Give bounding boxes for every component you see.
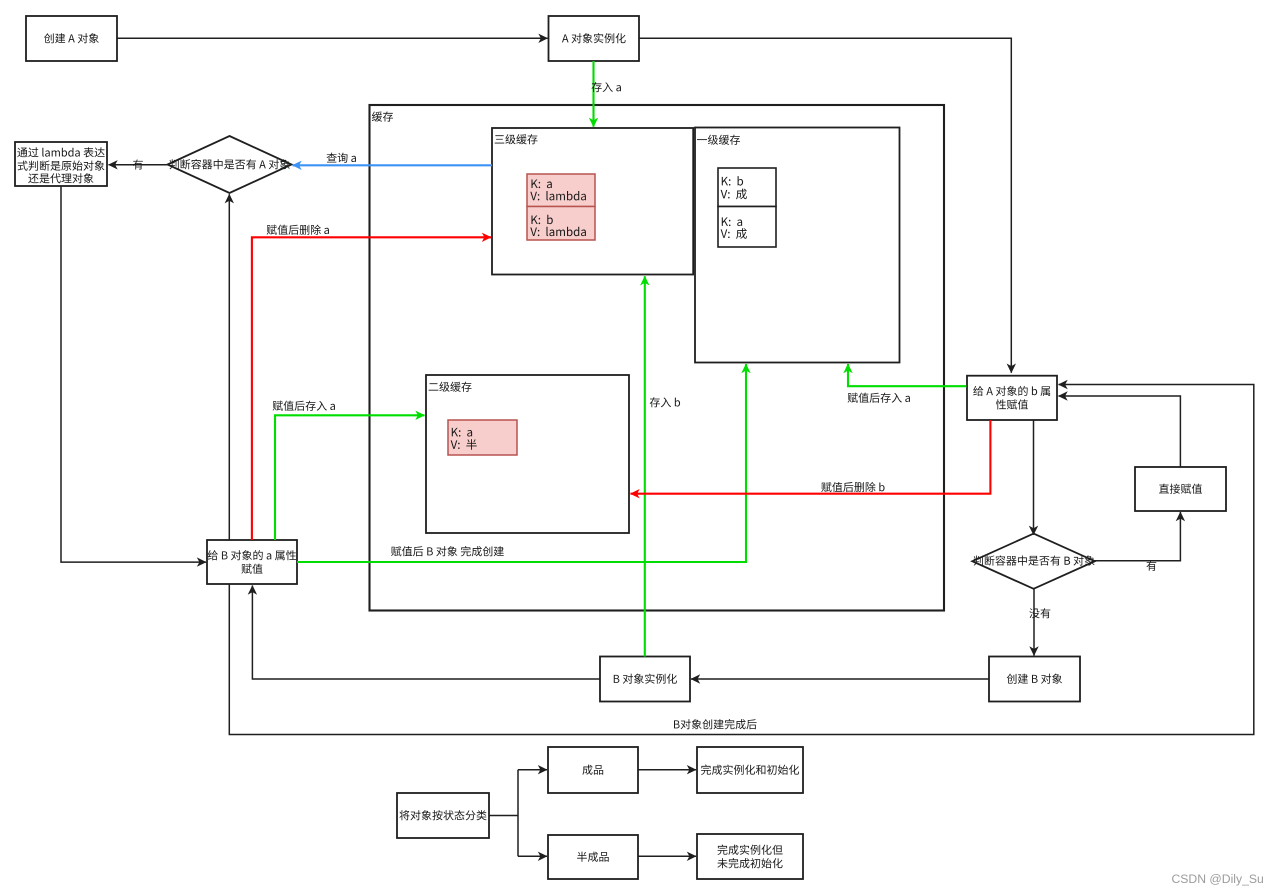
cache entry cell K:a V:半 (二级缓存)	[448, 420, 517, 455]
label 存入 a	[592, 82, 621, 92]
label 赋值后 B 对象 完成创建	[391, 546, 504, 556]
arrow big loop B对象创建完成后: 给B bottom around to 给A right (upper)	[229, 385, 1254, 735]
decision diamond 判断容器中是否有 B 对象	[972, 534, 1095, 589]
arrow branch to 半成品	[518, 855, 547, 857]
cache entry cell K:a V:成 (一级缓存)	[718, 207, 776, 248]
arrow 给A对象的b属性赋值 bottom to diamond-B top	[1033, 420, 1035, 535]
process box B 对象实例化	[600, 657, 690, 702]
arrow diamond-A left to lambda box, label 有	[109, 164, 168, 166]
process box 给 A 对象的 b 属性赋值	[967, 376, 1057, 420]
blue arrow 查询 a: 三级缓存 left to diamond-A right	[293, 164, 493, 166]
arrow diamond-B bottom to 创建B对象, label 没有	[1033, 588, 1035, 656]
cache entry cell K:b V:lambda (三级缓存)	[527, 207, 595, 241]
label 赋值后删除 b	[821, 482, 884, 492]
label B对象创建完成后	[674, 719, 757, 729]
process box 给 B 对象的 a 属性赋值	[207, 540, 297, 584]
arrow A对象实例化 right to 给A对象的b属性赋值 top	[639, 38, 1011, 372]
process box 将对象按状态分类	[397, 793, 489, 838]
red arrow 赋值后删除 a: 给B top to 三级缓存 left	[252, 237, 491, 540]
label 赋值后存入 a (left)	[273, 401, 335, 411]
arrow 给B对象的a属性赋值 top to diamond-A bottom	[228, 194, 230, 540]
label 有 (A diamond)	[133, 159, 143, 169]
process box A 对象实例化	[549, 16, 640, 61]
outer cache container box 缓存	[370, 105, 945, 611]
process box 半成品	[548, 835, 638, 879]
label 三级缓存	[495, 134, 538, 144]
label 赋值后删除 a	[267, 225, 329, 235]
green arrow 赋值后存入 a: 给B top to 二级缓存 left	[275, 415, 425, 540]
green arrow 赋值后 B 对象 完成创建: 给B right to 一级缓存 bottom	[297, 364, 746, 562]
process box 直接赋值	[1135, 467, 1226, 511]
process box 创建 B 对象	[989, 657, 1080, 702]
label 有 (B diamond)	[1146, 561, 1156, 571]
cache entry cell K:a V:lambda (三级缓存)	[527, 174, 595, 207]
process box 通过 lambda 表达式判断是原始对象还是代理对象	[15, 142, 107, 186]
label 赋值后存入 a (right)	[848, 393, 910, 403]
green arrow 存入 b: B对象实例化 top to 三级缓存 bottom	[644, 276, 646, 656]
arrow branch to 成品	[518, 769, 547, 771]
arrow 直接赋值 top to 给A对象的b属性赋值 right (lower)	[1059, 396, 1181, 467]
process box 完成实例化和初始化	[697, 747, 803, 793]
arrow 半成品 to 完成实例化但未完成初始化	[638, 855, 696, 857]
label 存入 b	[650, 397, 680, 407]
arrow 创建B对象 to B对象实例化	[691, 678, 989, 680]
green arrow 赋值后存入 a: 给A left to 一级缓存 bottom	[848, 364, 967, 386]
label 一级缓存	[697, 135, 740, 145]
svg-text:CSDN @Dily_Su: CSDN @Dily_Su	[1172, 872, 1264, 886]
connector 将对象按状态分类 branch	[489, 815, 518, 817]
arrow 创建A对象 to A对象实例化	[117, 37, 548, 39]
third-level cache box 三级缓存	[492, 128, 693, 275]
label 二级缓存	[429, 382, 472, 392]
label 查询 a	[327, 153, 356, 163]
label 缓存	[372, 111, 393, 121]
process box 完成实例化但未完成初始化	[697, 834, 803, 879]
arrow lambda box down-right to 给B对象的a属性赋值 left	[61, 186, 206, 562]
decision diamond 判断容器中是否有 A 对象	[168, 136, 292, 193]
red arrow 赋值后删除 b: 给A bottom to 二级缓存 right	[631, 420, 991, 494]
second-level cache box 二级缓存	[426, 375, 629, 533]
label 没有	[1029, 608, 1050, 618]
process box 创建 A 对象	[26, 16, 117, 61]
arrow 成品 to 完成实例化和初始化	[638, 769, 696, 771]
process box 成品	[548, 747, 638, 793]
green arrow 存入 a: A对象实例化 bottom to 三级缓存 top	[592, 61, 594, 127]
arrow B对象实例化 left-up to 给B对象的a属性赋值 bottom	[252, 586, 600, 680]
first-level cache box 一级缓存	[695, 128, 900, 363]
arrow diamond-B right to 直接赋值 bottom, label 有	[1094, 512, 1181, 561]
cache entry cell K:b V:成 (一级缓存)	[718, 168, 776, 207]
